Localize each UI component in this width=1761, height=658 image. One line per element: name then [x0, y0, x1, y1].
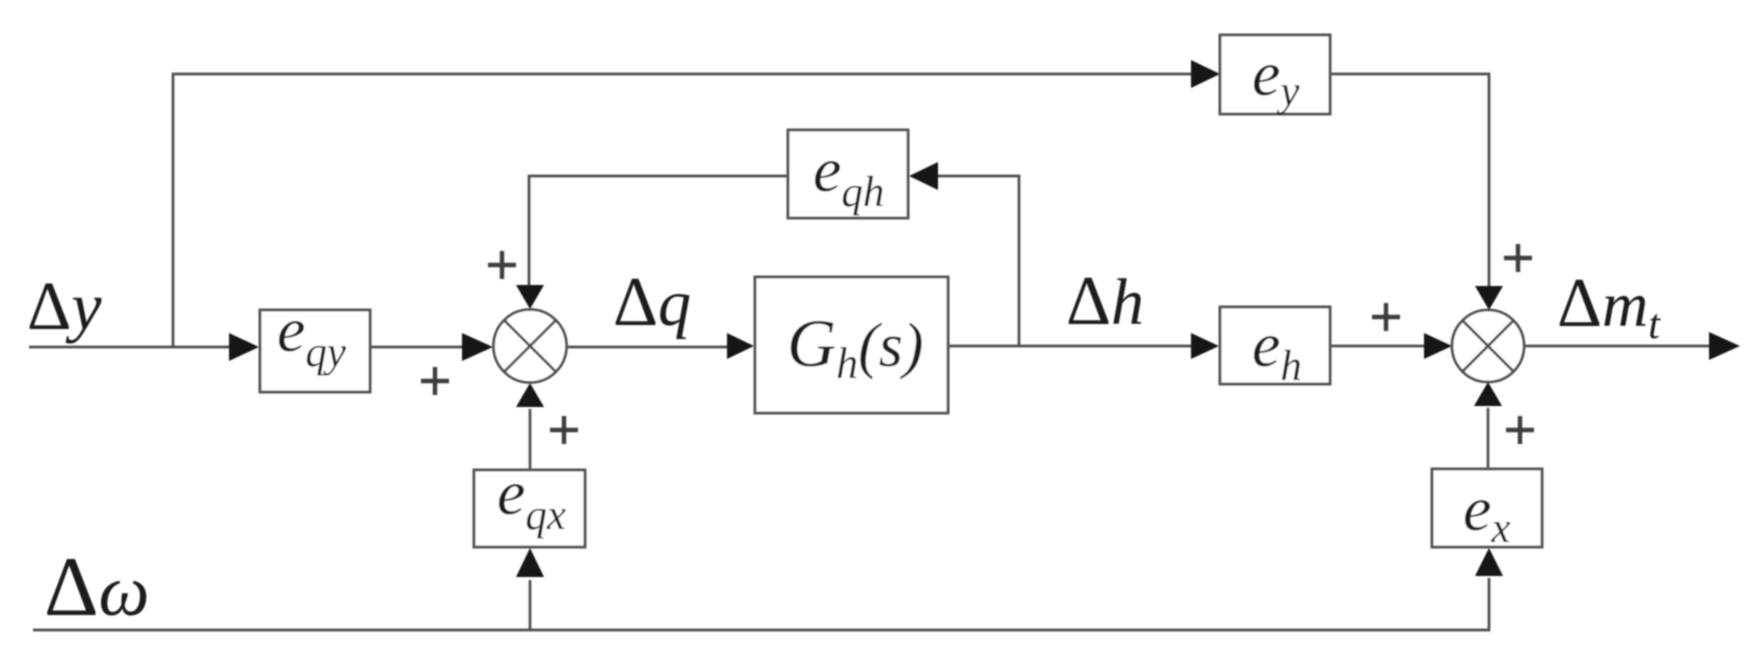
- wire feedback tap up from G_h output to e_qh: [936, 176, 1019, 346]
- plus sign left of right junction: [1372, 303, 1400, 331]
- wire e_x up to right junction: [1487, 408, 1490, 469]
- wire branch from Δy up and across top to e_y: [173, 74, 1193, 347]
- block e_h: [1220, 307, 1330, 390]
- arrowhead up into right junction bottom: [1474, 382, 1502, 406]
- arrowhead into e_h: [1191, 333, 1219, 359]
- wire e_h to right summing junction: [1330, 345, 1426, 348]
- summing junction left (circle with X): [494, 310, 567, 383]
- svg-text:Δh: Δh: [1066, 263, 1144, 340]
- label Δh: [1066, 263, 1144, 340]
- block e_qh: [788, 130, 908, 218]
- arrowhead into e_y: [1191, 60, 1220, 88]
- arrowhead up into left junction bottom: [516, 383, 544, 407]
- wire e_qh output left and down into left junction: [529, 176, 788, 288]
- block G_h(s): [755, 277, 948, 413]
- arrowhead down into right junction top: [1475, 286, 1503, 310]
- wire output Δm: [1524, 345, 1712, 348]
- svg-text:Δω: Δω: [44, 540, 150, 634]
- arrowhead into e_qy: [229, 333, 259, 361]
- wire input Δy main line: [29, 346, 232, 349]
- svg-text:Δmt: Δmt: [1557, 265, 1661, 348]
- wire e_qx up to left junction: [529, 409, 532, 470]
- label Δm_t: [1557, 265, 1661, 348]
- wire bottom Δω line: [33, 578, 1489, 630]
- wire left junction to G_h(s): [567, 346, 729, 349]
- label Δω: [44, 540, 150, 634]
- plus sign below-right of right junction: [1506, 416, 1534, 444]
- plus sign below-right of left junction: [550, 416, 578, 444]
- arrowhead down into left junction top: [516, 285, 544, 309]
- svg-text:Δy: Δy: [27, 268, 102, 344]
- plus sign below-left of left junction: [421, 367, 449, 395]
- plus sign above right junction: [1504, 244, 1532, 272]
- block e_qy: [260, 294, 370, 392]
- block e_y: [1220, 35, 1330, 115]
- block e_qx: [474, 457, 585, 547]
- wire e_y output right and down into right junction: [1330, 74, 1489, 288]
- block e_x: [1432, 469, 1542, 552]
- arrowhead output Δm: [1709, 332, 1740, 360]
- arrowhead up into e_x: [1475, 548, 1503, 576]
- label Δq: [613, 264, 691, 341]
- wire e_qy to left summing junction: [370, 346, 465, 349]
- wire G_h(s) to e_h: [948, 345, 1193, 348]
- plus sign above left junction: [488, 251, 516, 279]
- wire bottom line up to e_qx: [529, 580, 532, 630]
- arrowhead left into e_qh: [909, 162, 938, 190]
- svg-text:Δq: Δq: [613, 264, 691, 341]
- arrowhead into left junction from e_qy: [462, 333, 493, 361]
- arrowhead into right junction from e_h: [1424, 333, 1452, 359]
- summing junction right (circle with X): [1452, 310, 1524, 382]
- arrowhead up into e_qx: [516, 548, 544, 577]
- arrowhead into G_h(s): [727, 333, 754, 359]
- label Δy: [27, 268, 102, 344]
